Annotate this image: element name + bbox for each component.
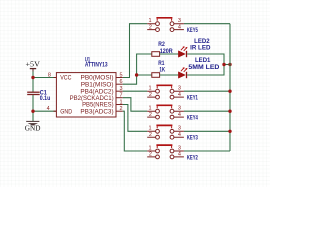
junction +5V node — [31, 76, 34, 79]
pin 7 stub — [116, 97, 123, 99]
capacitor C1 — [27, 90, 50, 102]
pin 6 stub — [116, 83, 123, 85]
svg-text:6: 6 — [119, 79, 122, 85]
wire +5V to VCC pin 8 — [33, 77, 56, 79]
LED LED2 IR LED — [178, 39, 211, 57]
svg-text:2: 2 — [149, 132, 152, 138]
svg-text:2: 2 — [149, 112, 152, 118]
wire KEY2 right — [184, 150, 230, 152]
svg-text:3: 3 — [178, 126, 181, 132]
svg-text:LED2: LED2 — [194, 39, 210, 45]
svg-text:1: 1 — [148, 86, 151, 92]
svg-text:ATTINY13: ATTINY13 — [85, 63, 108, 69]
pin VCC stub (pin 8) — [54, 77, 57, 79]
svg-text:4: 4 — [47, 106, 50, 112]
svg-text:R2: R2 — [158, 42, 165, 48]
resistor R1 — [152, 61, 166, 77]
wire KEY1 right — [184, 90, 230, 92]
wire PB3 to KEY2 — [123, 111, 147, 151]
svg-text:3: 3 — [119, 86, 122, 92]
wire PB4 to KEY1 — [123, 90, 147, 92]
svg-text:1K: 1K — [159, 68, 165, 74]
ground symbol GND — [25, 121, 41, 132]
svg-text:4: 4 — [178, 132, 181, 138]
wire LED1 cathode — [187, 65, 224, 76]
svg-text:GND: GND — [60, 108, 72, 115]
svg-text:R1: R1 — [158, 61, 165, 67]
wire right rail — [229, 24, 231, 151]
pin 3 stub — [116, 90, 123, 92]
svg-text:2: 2 — [149, 152, 152, 158]
svg-text:PB3(ADC3): PB3(ADC3) — [80, 108, 113, 115]
svg-text:4: 4 — [178, 152, 181, 158]
junction rail KEY3 — [228, 130, 231, 133]
svg-text:3: 3 — [178, 86, 181, 92]
svg-text:0.1u: 0.1u — [40, 96, 51, 102]
op-amp U1 ATTINY13 body — [56, 57, 116, 117]
junction R1 R2 node — [135, 73, 138, 76]
pin 5 stub — [116, 77, 123, 79]
wire PB1 to R1 R2 — [123, 54, 152, 84]
junction LED node — [222, 63, 225, 66]
svg-text:1: 1 — [148, 145, 151, 151]
svg-text:LED1: LED1 — [195, 58, 211, 64]
switch KEY4 — [147, 105, 198, 121]
wire PB0 to KEY5 — [123, 24, 147, 78]
LED LED1 5MM LED — [178, 58, 220, 78]
wire LED node to rail — [224, 64, 230, 66]
svg-text:4: 4 — [178, 92, 181, 98]
svg-text:1: 1 — [119, 99, 122, 105]
power +5V supply symbol — [26, 60, 40, 72]
junction rail KEY1 — [228, 90, 231, 93]
wire C1 to GND — [32, 95, 34, 121]
resistor R2 — [152, 42, 174, 56]
svg-text:5MM LED: 5MM LED — [188, 65, 220, 71]
wire LED2 cathode — [187, 54, 224, 65]
junction GND node — [31, 110, 34, 113]
svg-text:KEY4: KEY4 — [187, 116, 198, 122]
pin GND stub (pin 4) — [54, 110, 57, 112]
svg-text:3: 3 — [178, 145, 181, 151]
pin 2 stub — [116, 110, 123, 112]
wire KEY4 right — [184, 110, 230, 112]
svg-text:KEY2: KEY2 — [187, 155, 198, 161]
svg-text:3: 3 — [178, 106, 181, 112]
svg-text:8: 8 — [48, 72, 51, 78]
wire PB2 to KEY4 — [123, 98, 147, 112]
svg-text:3: 3 — [178, 18, 181, 24]
wire +5V vertical to C1 — [32, 72, 34, 93]
svg-text:4: 4 — [178, 24, 181, 30]
svg-text:4: 4 — [178, 112, 181, 118]
wire R1 to LED1 — [160, 74, 179, 76]
wire R2 to LED2 — [160, 53, 179, 55]
svg-text:VCC: VCC — [60, 75, 72, 82]
svg-text:7: 7 — [119, 93, 122, 99]
svg-text:1: 1 — [148, 18, 151, 24]
wire KEY3 right — [184, 130, 230, 132]
wire KEY5 right — [184, 23, 230, 25]
switch KEY5 — [147, 18, 198, 34]
svg-text:IR LED: IR LED — [190, 46, 211, 52]
svg-text:KEY5: KEY5 — [187, 28, 198, 34]
svg-text:KEY3: KEY3 — [187, 136, 198, 142]
svg-text:5: 5 — [119, 72, 122, 78]
svg-text:2: 2 — [119, 106, 122, 112]
svg-text:KEY1: KEY1 — [187, 96, 198, 102]
switch KEY2 — [147, 145, 198, 161]
svg-text:GND: GND — [25, 124, 41, 132]
junction rail KEY4 — [228, 110, 231, 113]
pin 1 stub — [116, 104, 123, 106]
wire PB5 to KEY3 — [123, 105, 147, 132]
svg-text:2: 2 — [149, 92, 152, 98]
svg-text:+5V: +5V — [26, 60, 40, 68]
svg-text:1: 1 — [148, 106, 151, 112]
wire GND pin 4 to GND net — [33, 110, 56, 112]
switch KEY3 — [147, 125, 198, 141]
svg-text:2: 2 — [149, 24, 152, 30]
junction rail LED node — [228, 63, 231, 66]
switch KEY1 — [147, 85, 198, 101]
svg-text:1: 1 — [148, 126, 151, 132]
